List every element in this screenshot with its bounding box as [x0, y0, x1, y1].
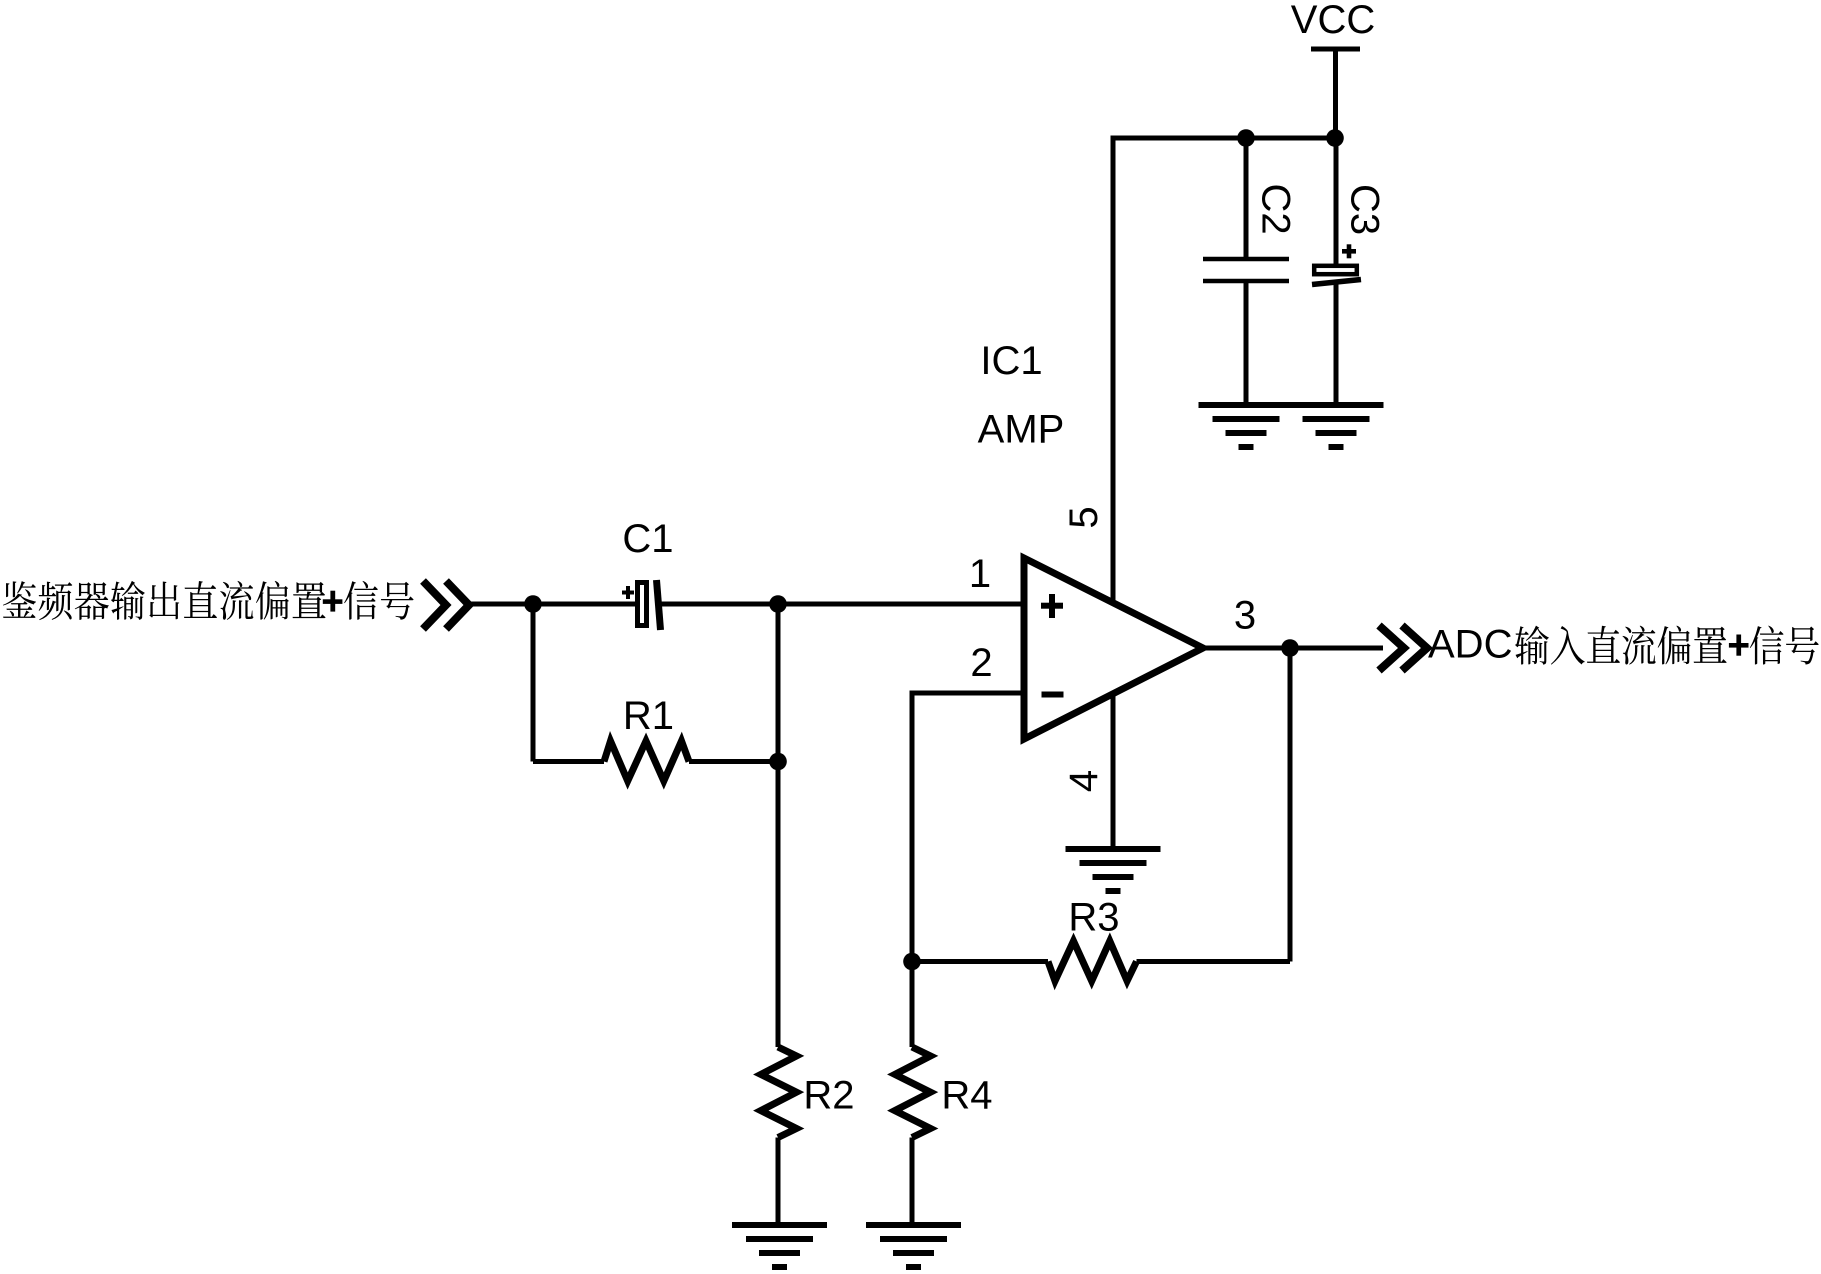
- svg-text:4: 4: [1062, 770, 1106, 792]
- svg-text:5: 5: [1062, 506, 1106, 528]
- ground below pin 4: [1066, 849, 1161, 891]
- capacitor C1 plus mark: [622, 586, 634, 599]
- wire VCC to rail: [1333, 49, 1338, 141]
- capacitor C1 left plate: [638, 583, 647, 626]
- wire C3 to ground: [1334, 284, 1339, 405]
- ground below R4: [866, 1225, 961, 1267]
- CJK text 鉴频器输出直流偏置: [3, 581, 414, 620]
- node VCC junction: [1326, 129, 1344, 147]
- wire R4 to ground: [910, 1138, 915, 1226]
- node R1/R2 junction: [769, 753, 787, 771]
- resistor R2: [761, 1047, 797, 1138]
- op-amp plus mark: [1041, 594, 1063, 618]
- node A junction: [524, 595, 542, 613]
- wire pin 4 to ground: [1111, 694, 1116, 849]
- wire input to C1: [468, 602, 637, 607]
- wire rail to C3: [1334, 138, 1339, 264]
- capacitor C3 plus mark: [1342, 244, 1356, 258]
- svg-text:ADC: ADC: [1428, 622, 1512, 666]
- output port chevron P2: [1379, 626, 1427, 671]
- wire output down to R3: [1288, 648, 1293, 962]
- resistor R4: [895, 1047, 931, 1138]
- svg-text:R4: R4: [941, 1074, 992, 1118]
- svg-text:C1: C1: [622, 517, 673, 561]
- wire R2 to ground: [776, 1138, 781, 1226]
- capacitor C2 plates: [1203, 259, 1289, 281]
- ground below C2: [1199, 405, 1294, 447]
- svg-text:3: 3: [1234, 594, 1256, 638]
- wire pin 5 riser to VCC rail: [1111, 136, 1116, 603]
- node D output junction: [1281, 639, 1299, 657]
- capacitor C3 bottom plate: [1312, 280, 1361, 285]
- wire node C down to R4: [910, 962, 915, 1048]
- wire rail to C2: [1244, 138, 1249, 259]
- input port chevron P1: [423, 581, 469, 629]
- wire output: [1203, 646, 1383, 651]
- wire inverting input pin 2: [912, 691, 1024, 696]
- capacitor C1 right plate: [657, 580, 661, 630]
- VCC power bar: [1311, 47, 1360, 52]
- svg-text:R1: R1: [623, 694, 674, 738]
- op-amp minus mark: [1042, 692, 1064, 698]
- node C junction: [903, 953, 921, 971]
- wire pin 2 down to node C: [910, 691, 915, 962]
- wire node B down to R1 right: [776, 602, 781, 762]
- svg-text:R2: R2: [803, 1074, 854, 1118]
- plus sign in input label: [323, 591, 343, 612]
- resistor R3: [912, 941, 1290, 981]
- wire junction down to R2: [776, 762, 781, 1048]
- node B junction: [769, 595, 787, 613]
- svg-text:AMP: AMP: [978, 408, 1065, 452]
- svg-text:IC1: IC1: [980, 339, 1042, 383]
- resistor R1: [533, 741, 778, 781]
- wire C2 to ground: [1244, 281, 1249, 405]
- capacitor C3 top plate: [1314, 266, 1357, 274]
- svg-text:C3: C3: [1342, 184, 1386, 235]
- svg-text:2: 2: [970, 641, 992, 685]
- CJK text 输入直流偏置信号: [1515, 626, 1819, 665]
- wire C1 to node B: [659, 602, 1024, 607]
- node C2 junction: [1237, 129, 1255, 147]
- plus sign in output label: [1729, 635, 1749, 656]
- svg-text:1: 1: [969, 552, 991, 596]
- svg-text:R3: R3: [1068, 896, 1119, 940]
- svg-text:C2: C2: [1253, 183, 1297, 234]
- svg-text:VCC: VCC: [1291, 0, 1375, 42]
- ground below C3: [1289, 405, 1384, 447]
- ground below R2: [732, 1225, 827, 1267]
- op-amp U1 triangle: [1024, 558, 1203, 739]
- wire node A down to R1: [531, 602, 536, 762]
